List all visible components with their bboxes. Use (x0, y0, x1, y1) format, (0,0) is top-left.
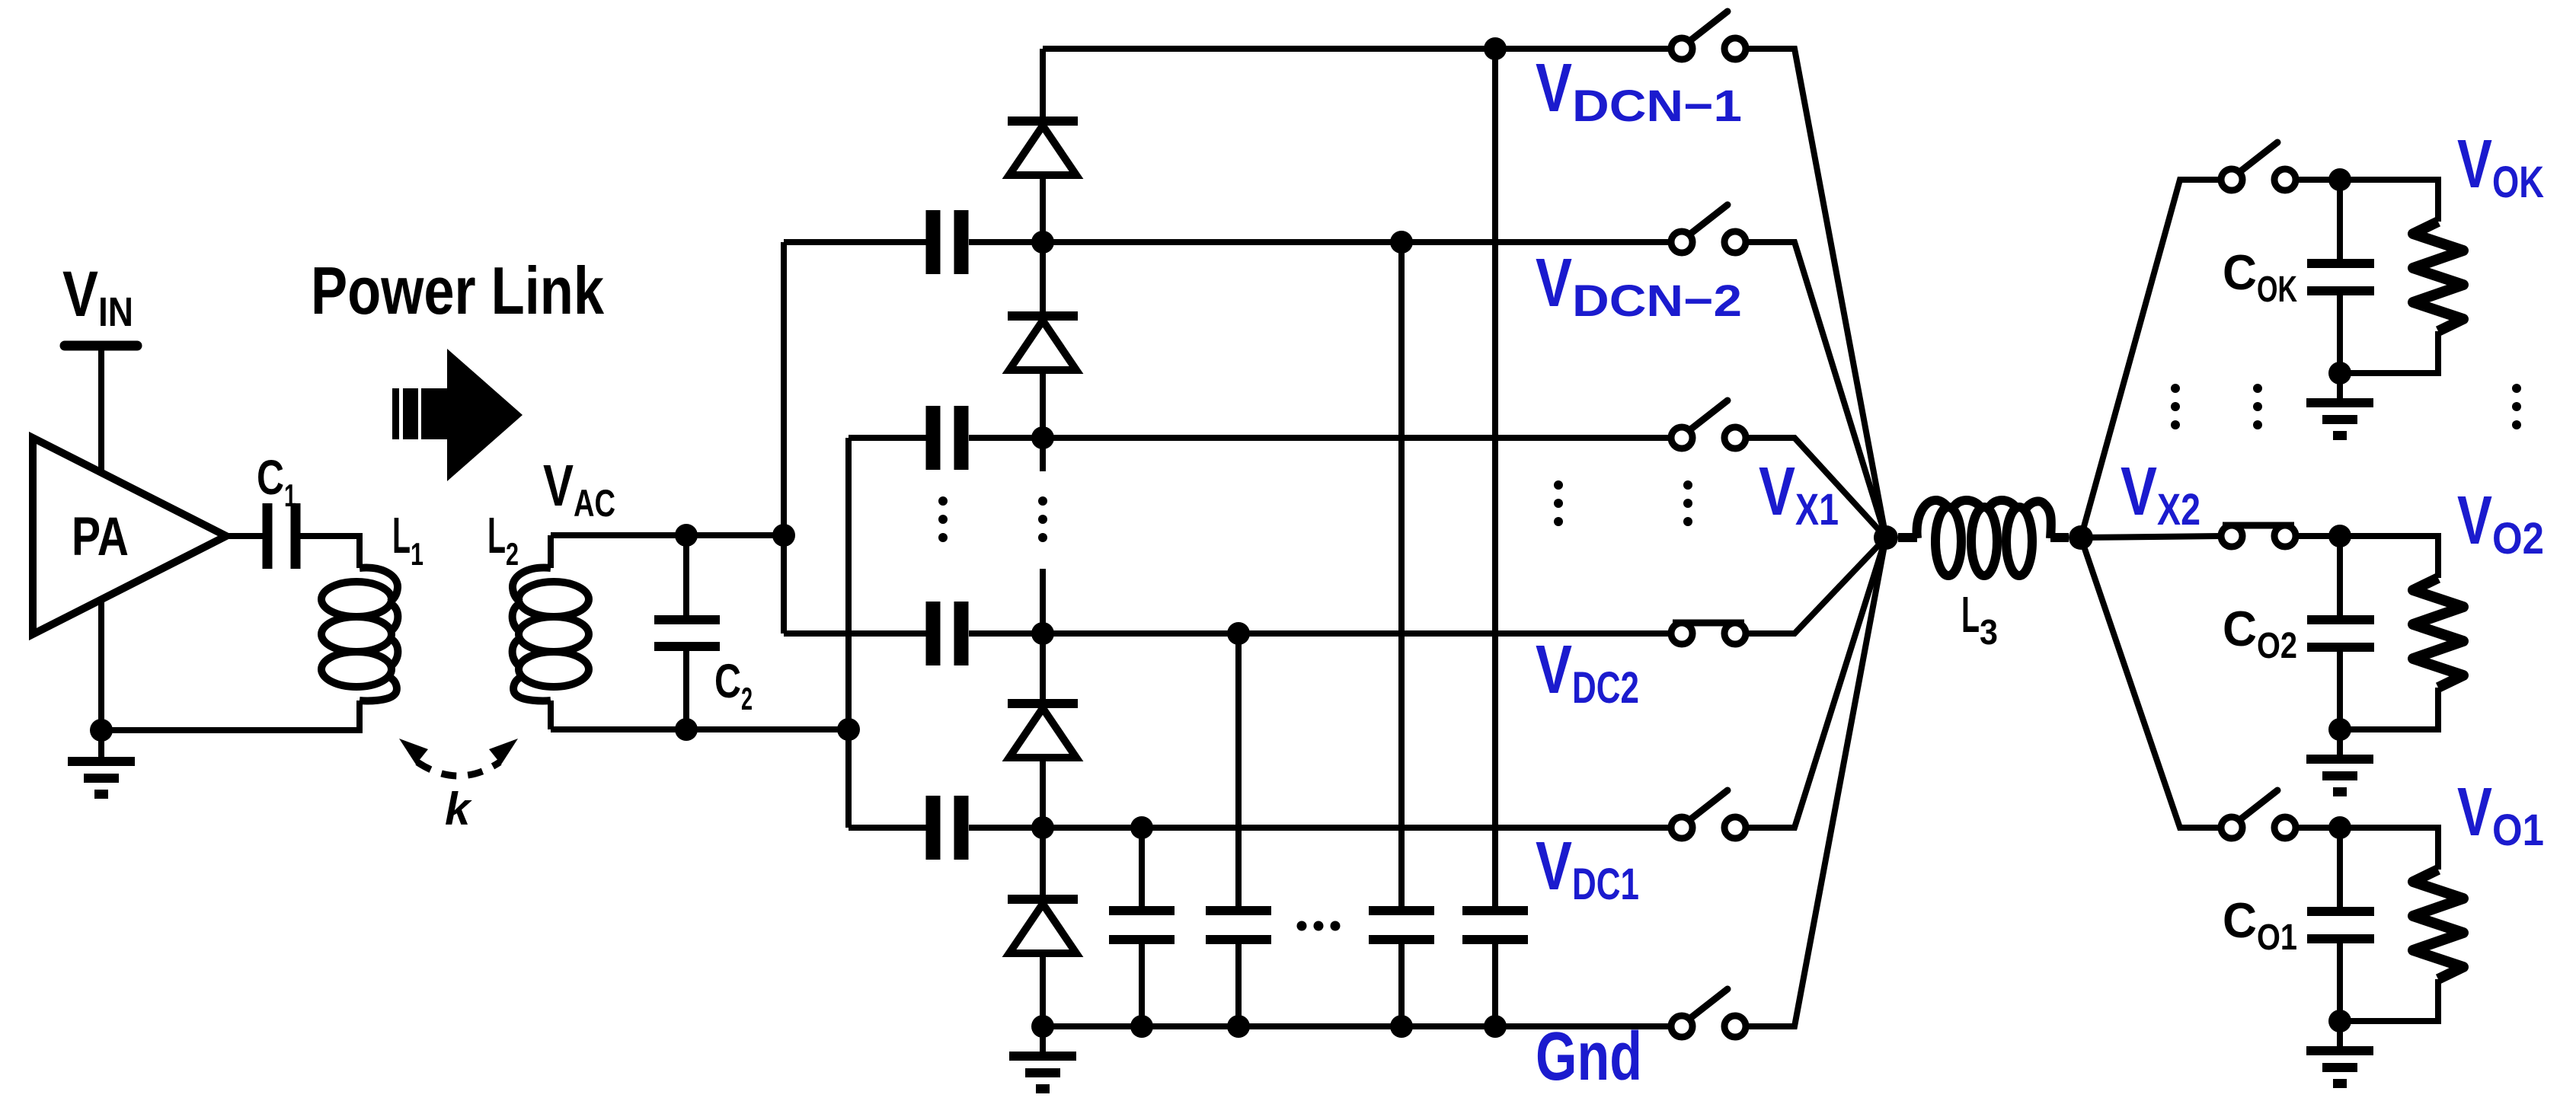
wire resistor RO1 bottom (2340, 979, 2438, 1021)
arrow power flow (392, 349, 523, 481)
ellipsis switch area dots right (1683, 480, 1692, 526)
node VX1 label (1759, 454, 1839, 535)
wire rectifier top rail VDCN-1 (1043, 46, 1668, 52)
junction VAC top (675, 524, 698, 547)
wire node to resistor ROK (2340, 180, 2438, 222)
coupling k dashed arrow (399, 739, 518, 835)
wire VX2 to branch O2 (2081, 536, 2221, 538)
wire row to pump capacitor CP5 (849, 825, 926, 831)
diode D2 (1008, 633, 1078, 828)
junction row tap CB1 (1130, 816, 1153, 839)
junction C2 bottom (675, 718, 698, 741)
svg-text:Gnd: Gnd (1536, 1019, 1642, 1095)
junction PA ground (90, 719, 113, 742)
junction CB2 ground bus (1227, 1015, 1250, 1038)
wire C1 to L1 (300, 536, 360, 568)
ground rectifier (1009, 1026, 1076, 1089)
ground branch OK (2306, 373, 2373, 436)
junction row VDC2 (1031, 622, 1054, 645)
capacitor pump CP4 (933, 602, 961, 665)
wire resistor ROK bottom (2340, 331, 2438, 373)
capacitor C1 (257, 450, 296, 569)
op-amp PA power amplifier triangle (33, 438, 226, 634)
node VIN label (62, 258, 133, 335)
label Gnd (1536, 1019, 1642, 1095)
wire L2 top to VAC (551, 535, 784, 568)
ground branch O2 (2306, 729, 2373, 792)
junction row tap CB2 (1227, 622, 1250, 645)
capacitor COK (2223, 180, 2374, 373)
ellipsis output dots col1 (2171, 384, 2180, 429)
junction CB4 ground bus (1484, 1015, 1507, 1038)
wire CB3 to ground bus (1398, 944, 1405, 1026)
ellipsis chain dots (1038, 496, 1047, 542)
wire L2 bottom rail (551, 701, 849, 729)
diode D4 top (1008, 49, 1078, 242)
node VAC label (543, 453, 615, 525)
wire chain dots gap (1040, 438, 1046, 633)
junction VO1 (2328, 816, 2351, 839)
ellipsis switch area dots left (1554, 480, 1563, 526)
wire bus B (845, 438, 852, 828)
ellipsis bank caps dots (1297, 921, 1341, 931)
resistor load RO1 (2413, 870, 2463, 979)
switch S VDCN-2 (1671, 205, 1746, 253)
junction row VDC1 (1031, 816, 1054, 839)
ground PA (68, 730, 135, 794)
wire switch VDC2 to VX1 (1746, 538, 1886, 633)
inductor L1 (321, 568, 398, 701)
wire VX2 to branch O1 (2081, 538, 2221, 828)
wire PA to ground rail (98, 599, 104, 730)
wire node to resistor RO1 (2340, 828, 2438, 870)
capacitor CO1 (2223, 828, 2374, 1021)
capacitor C2 (654, 535, 753, 729)
wire switch to node VO2 (2296, 533, 2340, 539)
wire switch VDCN-2 to VX1 (1746, 242, 1886, 538)
junction row tap CB3 (1390, 231, 1413, 254)
capacitor bank CB1 (1109, 911, 1175, 940)
junction COK bottom (2328, 362, 2351, 385)
wire bus A (781, 242, 787, 633)
wire CP5 to diode chain (969, 825, 1043, 831)
diode D1 bottom (1008, 828, 1078, 1026)
junction bottom-rail bus B (837, 718, 860, 741)
wire switch VDC1 to VX1 (1746, 538, 1886, 828)
wire tap drop CB3 (1398, 242, 1405, 907)
label VOK (2457, 126, 2544, 207)
label VO1 (2457, 774, 2544, 855)
junction VOK (2328, 168, 2351, 191)
wire L1 to ground rail (101, 701, 360, 730)
wire switch Gnd to VX1 (1746, 538, 1886, 1026)
ground branch O1 (2306, 1021, 2373, 1083)
label VDCN-2 (1536, 245, 1742, 326)
wire row to pump capacitor CP4 (784, 630, 926, 637)
wire row VDC2 rail (1043, 630, 1668, 637)
junction row tap CB4 (1484, 37, 1507, 60)
junction CO2 bottom (2328, 718, 2351, 741)
label VDC2 (1536, 632, 1639, 713)
node VX2 label (2121, 454, 2200, 535)
junction VO2 (2328, 525, 2351, 547)
ellipsis pump cap column dots (938, 496, 948, 542)
wire tap drop CB2 (1235, 633, 1242, 907)
wire CP3 to diode chain (969, 435, 1043, 441)
ellipsis output dots col2 (2253, 384, 2262, 429)
label VO2 (2457, 483, 2544, 563)
junction CB3 ground bus (1390, 1015, 1413, 1038)
wire row to pump capacitor CP3 (849, 435, 926, 441)
wire row 3 rail (1043, 435, 1668, 441)
wire switch to node VO1 (2296, 825, 2340, 831)
inductor L3 (1898, 500, 2069, 576)
capacitor pump CP3 (933, 406, 961, 470)
wire CB4 to ground bus (1492, 944, 1498, 1026)
wire tap drop CB4 (1492, 49, 1498, 907)
wire resistor RO2 bottom (2340, 688, 2438, 729)
junction row 3 (1031, 426, 1054, 449)
diode D3 (1008, 242, 1078, 438)
switch S row3 (1671, 401, 1746, 448)
capacitor bank CB3 (1369, 911, 1434, 940)
wire CP4 to diode chain (969, 630, 1043, 637)
label Power Link (311, 253, 605, 328)
label VDC1 (1536, 828, 1639, 909)
battery VIN supply bar (65, 341, 137, 351)
wire CB2 to ground bus (1235, 944, 1242, 1026)
resistor load RO2 (2413, 578, 2463, 688)
label VDCN-1 (1536, 50, 1742, 131)
switch S VDCN-1 (1671, 11, 1746, 59)
switch S VDC2 (1671, 623, 1746, 644)
wire node to resistor RO2 (2340, 536, 2438, 578)
switch SOK (2221, 142, 2296, 190)
ellipsis output dots col3 (2512, 384, 2521, 429)
capacitor bank CB4 (1462, 911, 1528, 940)
wire tap drop CB1 (1139, 828, 1145, 907)
junction CB1 ground bus (1130, 1015, 1153, 1038)
capacitor pump CP5 (933, 796, 961, 860)
wire switch row3 to VX1 (1746, 438, 1886, 538)
junction row VDCN-2 (1031, 231, 1054, 254)
wire switch VDCN-1 to VX1 (1746, 49, 1886, 538)
svg-text:PA: PA (72, 507, 129, 567)
wire VIN to PA (98, 350, 104, 475)
wire row VDCN-2 rail (1043, 239, 1668, 245)
wire row VDC1 rail (1043, 825, 1668, 831)
wire switch to node VOK (2296, 177, 2340, 183)
wire PA output to C1 (226, 533, 263, 539)
switch SO1 (2221, 790, 2296, 838)
junction VX1 (1874, 525, 1898, 550)
junction CO1 bottom (2328, 1010, 2351, 1032)
switch S VDC1 (1671, 790, 1746, 838)
junction VX2 (2069, 525, 2093, 550)
wire row to pump capacitor CP2 (784, 239, 926, 245)
capacitor bank CB2 (1206, 911, 1271, 940)
wire CP2 to diode chain (969, 239, 1043, 245)
wire CB1 to ground bus (1139, 944, 1145, 1026)
switch S Gnd (1671, 989, 1746, 1037)
capacitor pump CP2 (933, 210, 961, 274)
capacitor CO2 (2223, 536, 2374, 729)
junction chain ground (1031, 1015, 1054, 1038)
junction VAC bus A (772, 524, 795, 547)
svg-text:k: k (445, 783, 472, 835)
wire ground bus (1043, 1023, 1668, 1029)
wire VX2 to branch OK (2081, 180, 2221, 538)
inductor L2 (513, 568, 589, 701)
svg-text:Power Link: Power Link (311, 253, 605, 328)
resistor load ROK (2413, 222, 2463, 331)
switch SO2 (2221, 525, 2296, 547)
